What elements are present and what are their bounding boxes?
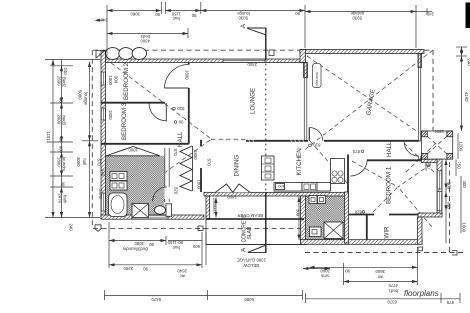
svg-text:4190: 4190 — [464, 92, 469, 102]
svg-text:90: 90 — [295, 11, 300, 16]
svg-text:bed3: bed3 — [62, 116, 67, 126]
svg-text:870: 870 — [97, 159, 102, 167]
svg-text:Bed2: Bed2 — [62, 77, 67, 88]
svg-text:A: A — [241, 247, 248, 252]
svg-text:WIR: WIR — [384, 226, 391, 239]
svg-text:2470: 2470 — [58, 194, 63, 204]
svg-text:900: 900 — [447, 182, 452, 190]
svg-text:2470: 2470 — [98, 189, 103, 199]
svg-text:BEDROOM 3: BEDROOM 3 — [121, 102, 128, 140]
svg-text:11510: 11510 — [46, 132, 51, 144]
svg-text:90: 90 — [345, 269, 350, 274]
svg-text:5930: 5930 — [352, 16, 362, 21]
svg-text:1800: 1800 — [108, 76, 113, 86]
svg-text:bed2: bed2 — [140, 34, 150, 39]
svg-text:90: 90 — [59, 98, 64, 103]
svg-text:820: 820 — [354, 210, 362, 215]
svg-text:3600: 3600 — [375, 269, 385, 274]
svg-text:1200: 1200 — [459, 142, 464, 152]
svg-text:240: 240 — [100, 18, 108, 23]
svg-text:870: 870 — [207, 159, 212, 167]
svg-text:300: 300 — [296, 209, 301, 217]
svg-text:500: 500 — [427, 162, 432, 170]
svg-text:wc: wc — [179, 274, 185, 279]
svg-text:bath: bath — [63, 195, 68, 204]
svg-text:3080: 3080 — [134, 241, 144, 246]
svg-text:1800: 1800 — [227, 194, 237, 199]
svg-text:1800: 1800 — [57, 157, 62, 167]
svg-text:HALL: HALL — [177, 131, 184, 147]
svg-text:240: 240 — [467, 59, 470, 67]
svg-text:wir: wir — [377, 275, 383, 280]
svg-text:1800: 1800 — [462, 223, 467, 233]
svg-text:BEDROOM 1: BEDROOM 1 — [386, 166, 393, 204]
svg-text:floorplans: floorplans — [404, 289, 439, 298]
svg-text:5030: 5030 — [238, 16, 248, 21]
svg-text:1800: 1800 — [128, 148, 138, 153]
svg-text:SLAB: SLAB — [247, 226, 253, 239]
svg-text:240: 240 — [426, 11, 434, 16]
svg-text:90: 90 — [178, 119, 183, 124]
svg-text:hall: hall — [82, 159, 87, 166]
svg-text:900: 900 — [114, 76, 119, 84]
svg-text:5470: 5470 — [151, 297, 161, 302]
svg-text:975: 975 — [446, 300, 454, 305]
svg-text:HALL: HALL — [386, 141, 393, 157]
svg-text:1930MAX: 1930MAX — [212, 198, 216, 214]
svg-text:DINING: DINING — [234, 155, 241, 177]
svg-text:900: 900 — [447, 202, 452, 210]
svg-text:1800: 1800 — [108, 110, 113, 120]
svg-text:BELOW: BELOW — [243, 263, 259, 268]
svg-text:820: 820 — [174, 187, 179, 195]
svg-text:4300: 4300 — [140, 39, 150, 44]
svg-text:5080: 5080 — [78, 90, 83, 100]
svg-text:90: 90 — [149, 242, 154, 247]
svg-text:lounge: lounge — [236, 11, 250, 16]
svg-text:KITCHEN: KITCHEN — [296, 148, 303, 175]
svg-text:600: 600 — [192, 244, 200, 249]
svg-text:bed1: bed1 — [388, 289, 398, 294]
svg-text:90: 90 — [59, 138, 64, 143]
svg-text:sms: sms — [321, 274, 329, 279]
svg-text:90: 90 — [143, 267, 148, 272]
svg-text:2600: 2600 — [57, 115, 62, 125]
svg-text:1800: 1800 — [193, 150, 198, 160]
svg-text:LOUNGE: LOUNGE — [250, 88, 257, 114]
svg-text:400: 400 — [462, 181, 467, 189]
svg-text:laundry: laundry — [62, 157, 67, 172]
svg-text:600: 600 — [59, 146, 64, 154]
svg-text:2400: 2400 — [247, 62, 257, 67]
svg-text:870: 870 — [173, 149, 178, 157]
svg-text:lounge: lounge — [84, 92, 89, 106]
svg-text:810: 810 — [313, 143, 321, 148]
svg-text:hwt: hwt — [173, 245, 180, 250]
svg-text:3080: 3080 — [130, 11, 140, 16]
svg-text:garage: garage — [350, 11, 364, 16]
svg-text:90: 90 — [191, 13, 196, 18]
svg-text:1150: 1150 — [171, 11, 181, 16]
svg-text:90: 90 — [155, 12, 160, 17]
svg-text:3050: 3050 — [76, 157, 81, 167]
svg-text:2600: 2600 — [57, 76, 62, 86]
svg-text:4775: 4775 — [388, 283, 398, 288]
svg-text:BEDROOM 2: BEDROOM 2 — [123, 62, 130, 100]
svg-text:870: 870 — [352, 149, 360, 154]
svg-text:Bed3/laundry: Bed3/laundry — [122, 247, 148, 252]
svg-text:900: 900 — [278, 184, 285, 189]
svg-text:2640: 2640 — [177, 269, 187, 274]
svg-text:BEAM OVER: BEAM OVER — [237, 213, 263, 218]
svg-text:6370: 6370 — [387, 300, 397, 305]
svg-text:2280: 2280 — [123, 266, 133, 271]
svg-text:tiled area: tiled area — [315, 72, 319, 85]
svg-text:750: 750 — [457, 162, 462, 170]
svg-text:2380 GARAGE: 2380 GARAGE — [237, 258, 266, 263]
svg-text:240: 240 — [63, 68, 68, 76]
svg-text:240: 240 — [101, 169, 106, 177]
svg-text:240: 240 — [69, 224, 74, 232]
svg-text:2000: 2000 — [320, 269, 330, 274]
svg-text:1800: 1800 — [434, 129, 444, 134]
svg-text:5080: 5080 — [244, 297, 254, 302]
svg-text:hwt: hwt — [173, 16, 180, 21]
svg-text:1800: 1800 — [185, 70, 190, 80]
svg-text:810: 810 — [177, 106, 185, 111]
svg-text:90-1150: 90-1150 — [167, 240, 183, 245]
svg-text:1800: 1800 — [197, 180, 202, 190]
svg-text:90: 90 — [61, 182, 66, 187]
svg-text:A: A — [240, 23, 247, 28]
